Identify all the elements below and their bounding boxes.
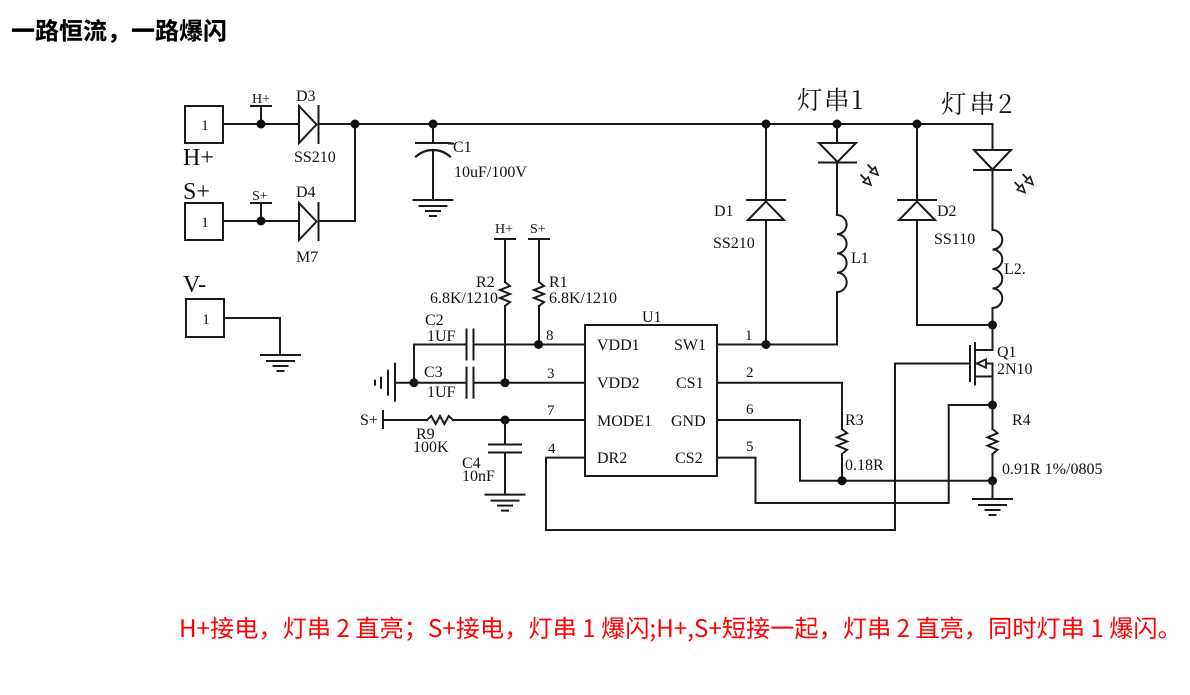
svg-text:10uF/100V: 10uF/100V	[454, 164, 527, 181]
svg-text:S+: S+	[252, 189, 268, 204]
svg-text:SW1: SW1	[674, 337, 706, 354]
svg-text:6: 6	[746, 402, 754, 418]
svg-text:D2: D2	[937, 203, 957, 220]
svg-text:5: 5	[746, 439, 754, 455]
svg-text:1: 1	[201, 118, 209, 134]
svg-text:CS1: CS1	[676, 375, 704, 392]
svg-text:0.18R: 0.18R	[845, 457, 884, 474]
svg-text:D3: D3	[296, 88, 316, 105]
svg-text:D4: D4	[296, 184, 316, 201]
svg-text:4: 4	[548, 441, 556, 457]
svg-text:R3: R3	[845, 412, 864, 429]
svg-text:M7: M7	[296, 249, 318, 266]
svg-text:100K: 100K	[413, 439, 449, 456]
svg-text:S+: S+	[530, 222, 546, 237]
svg-text:0.91R 1%/0805: 0.91R 1%/0805	[1002, 461, 1102, 478]
svg-text:10nF: 10nF	[462, 468, 495, 485]
svg-text:DR2: DR2	[597, 450, 627, 467]
svg-text:SS210: SS210	[294, 149, 336, 166]
svg-text:Q1: Q1	[997, 344, 1017, 361]
svg-text:1: 1	[202, 312, 210, 328]
svg-text:H+: H+	[183, 145, 214, 171]
svg-text:1: 1	[201, 215, 209, 231]
svg-text:V-: V-	[183, 272, 206, 298]
svg-text:1: 1	[745, 328, 753, 344]
svg-text:8: 8	[546, 328, 554, 344]
svg-text:H+: H+	[495, 222, 513, 237]
svg-text:R1: R1	[549, 274, 568, 291]
svg-text:CS2: CS2	[675, 450, 703, 467]
svg-text:C3: C3	[424, 364, 443, 381]
svg-text:6.8K/1210: 6.8K/1210	[430, 290, 498, 307]
svg-text:C1: C1	[453, 139, 472, 156]
svg-text:C2: C2	[425, 312, 444, 329]
svg-text:6.8K/1210: 6.8K/1210	[549, 290, 617, 307]
svg-text:L1: L1	[851, 250, 869, 267]
svg-text:2: 2	[746, 365, 754, 381]
svg-text:MODE1: MODE1	[597, 413, 652, 430]
svg-text:S+: S+	[183, 179, 210, 205]
svg-text:R4: R4	[1012, 412, 1031, 429]
svg-text:GND: GND	[671, 413, 706, 430]
svg-text:2N10: 2N10	[997, 361, 1033, 378]
svg-text:VDD2: VDD2	[597, 375, 640, 392]
svg-text:SS210: SS210	[713, 235, 755, 252]
svg-text:S+: S+	[360, 412, 378, 429]
svg-text:SS110: SS110	[934, 231, 975, 248]
svg-text:H+: H+	[252, 92, 270, 107]
svg-text:VDD1: VDD1	[597, 337, 640, 354]
svg-text:L2.: L2.	[1004, 261, 1026, 278]
svg-text:1UF: 1UF	[427, 384, 456, 401]
svg-text:1UF: 1UF	[427, 328, 456, 345]
svg-text:3: 3	[547, 366, 555, 382]
svg-text:7: 7	[547, 403, 555, 419]
svg-text:R2: R2	[476, 274, 495, 291]
svg-text:U1: U1	[642, 309, 662, 326]
svg-text:D1: D1	[714, 203, 734, 220]
